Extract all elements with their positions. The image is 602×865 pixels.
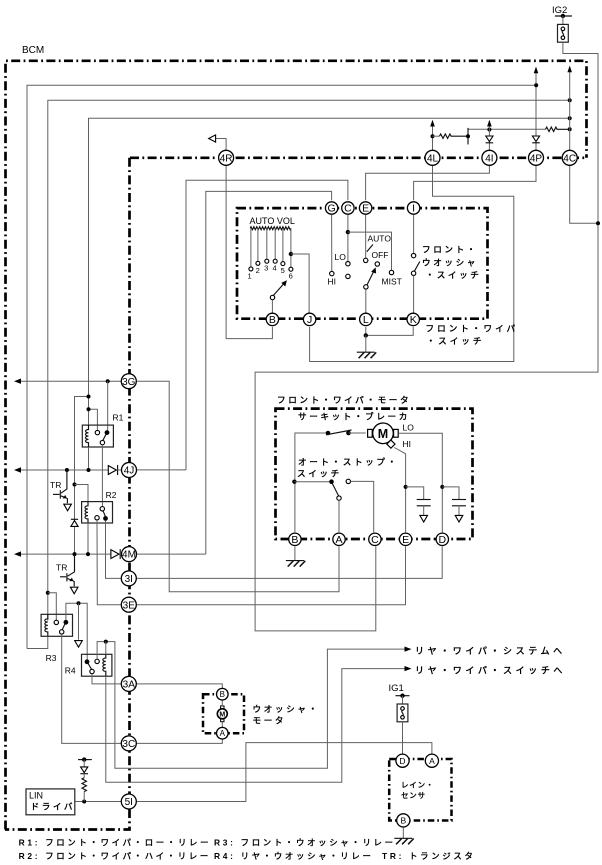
svg-text:BCM: BCM xyxy=(22,45,44,56)
wire washer M to A xyxy=(221,722,223,728)
open triangle below TR1 xyxy=(64,504,72,511)
svg-text:TR: TR xyxy=(56,563,67,573)
wire G to HI contact xyxy=(331,215,333,272)
svg-text:MIST: MIST xyxy=(382,277,402,287)
wire C down xyxy=(347,215,349,262)
wire branch to R2 coil net xyxy=(75,397,89,554)
arrowhead 4I up xyxy=(487,120,492,127)
svg-text:R1: R1 xyxy=(113,413,124,423)
open arrowhead 4R left xyxy=(209,135,216,142)
capacitor 1 xyxy=(406,487,431,522)
svg-text:サーキット・ブレーカ: サーキット・ブレーカ xyxy=(298,411,410,422)
wire motor HI to E xyxy=(394,448,405,533)
wire R1 contact to coil-top junction xyxy=(89,409,98,431)
svg-text:D: D xyxy=(399,756,405,766)
svg-text:5: 5 xyxy=(281,266,285,275)
svg-text:HI: HI xyxy=(403,439,412,449)
pin D rain xyxy=(396,754,409,767)
svg-text:2: 2 xyxy=(256,266,260,275)
svg-text:R4: R4 xyxy=(65,666,76,676)
LIN branch terminal dot xyxy=(82,757,86,761)
LIN branch terminal bar xyxy=(78,759,92,761)
wire motor B up to breaker xyxy=(295,433,326,532)
svg-text:センサ: センサ xyxy=(401,791,426,800)
wire to R2 coil top xyxy=(75,485,89,503)
pin J switch xyxy=(303,313,315,326)
svg-text:E: E xyxy=(402,534,409,546)
wire L-K junction to ground xyxy=(366,327,413,336)
wire R4 coil bottom to rear wiper switch arrow xyxy=(106,669,405,783)
pin K switch xyxy=(407,313,419,326)
pin 4P xyxy=(529,150,544,165)
wire 4R to B switch xyxy=(226,165,272,339)
svg-text:G: G xyxy=(328,203,336,215)
svg-text:LO: LO xyxy=(335,252,347,262)
junction bar/4L-branch xyxy=(466,134,470,138)
pin G switch xyxy=(325,202,337,215)
circuit breaker xyxy=(326,430,352,435)
wire 3G to motor A xyxy=(136,381,339,592)
IG2 terminal bar xyxy=(555,15,572,17)
arrowhead rear wiper switch xyxy=(405,666,412,671)
svg-text:R3: フロント・ウオッシャ・リレー: R3: フロント・ウオッシャ・リレー xyxy=(214,838,396,848)
svg-text:リヤ・ワイパ・スイッチへ: リヤ・ワイパ・スイッチへ xyxy=(415,665,566,676)
wire 4J right to C-switch net xyxy=(136,469,186,471)
junction loop3/R1-contact xyxy=(87,407,91,411)
wire R2 contact to 3E to motor E xyxy=(97,520,406,605)
contact HI xyxy=(330,271,334,275)
svg-text:R2: R2 xyxy=(106,490,117,500)
wire AUTO VOL tap 4 xyxy=(274,228,276,259)
contact MIST xyxy=(389,270,393,274)
motor M wiper xyxy=(368,423,399,448)
wire resistor to 5I line xyxy=(83,792,85,802)
pin 4I xyxy=(482,150,497,165)
arrowhead rear wiper system xyxy=(405,647,412,652)
junction L ground xyxy=(364,333,368,337)
svg-text:C: C xyxy=(371,534,379,546)
wire I switch to 4P xyxy=(414,165,536,200)
svg-text:・スイッチ: ・スイッチ xyxy=(426,270,482,280)
svg-text:4J: 4J xyxy=(124,466,135,477)
wire R1 coil bottom to 4J line xyxy=(88,447,90,470)
svg-text:フロント・: フロント・ xyxy=(422,245,478,255)
svg-text:モータ: モータ xyxy=(253,715,287,726)
wire 4M line with left arrow xyxy=(21,553,113,555)
relay R4 xyxy=(82,654,112,676)
arrowhead 4J left xyxy=(14,467,21,472)
capacitor 2 xyxy=(442,487,466,522)
junction C/MIST branch xyxy=(346,230,350,234)
contact tap 1 xyxy=(249,267,253,271)
svg-text:L: L xyxy=(363,314,369,326)
svg-text:B: B xyxy=(291,534,298,546)
contact below LO xyxy=(346,274,350,278)
svg-text:・スイッチ: ・スイッチ xyxy=(427,336,485,346)
svg-text:E: E xyxy=(362,203,369,215)
junction loop3/branch xyxy=(87,395,91,399)
zener diode on x74.5 (cathode up) xyxy=(71,519,78,526)
IG1 terminal bar xyxy=(396,695,410,697)
pin 4R xyxy=(219,150,234,165)
arrowhead 4M left xyxy=(14,551,21,556)
svg-text:B: B xyxy=(269,314,276,326)
contact tap 2 xyxy=(256,261,260,265)
wire loop2 to R3 contact xyxy=(48,593,57,620)
transistor TR2 xyxy=(60,554,75,586)
pin L switch xyxy=(360,313,372,326)
ground under motor B xyxy=(286,561,305,567)
terminator bar near 4L xyxy=(467,128,469,144)
wire to ground xyxy=(365,335,367,352)
wire 4I vertical with diode xyxy=(488,121,490,151)
junction 4M/R2coil xyxy=(86,552,90,556)
svg-text:R2: フロント・ワイパ・ハイ・リレー: R2: フロント・ワイパ・ハイ・リレー xyxy=(19,851,211,861)
wire auto-stop lever to motor A pin xyxy=(338,500,340,532)
diode above 4P (conducting down) xyxy=(532,136,540,143)
junction tap6 to J xyxy=(289,252,293,256)
pin 3C xyxy=(121,736,136,751)
svg-text:5I: 5I xyxy=(125,797,133,808)
svg-text:B: B xyxy=(400,816,406,826)
arrowhead 4P up xyxy=(534,67,539,74)
arrowhead 4L up xyxy=(430,120,435,127)
pin 3E xyxy=(121,597,136,612)
diode above 4I (conducting down) xyxy=(486,136,494,143)
junction 4C/IG2 xyxy=(596,221,600,225)
wire washer lever to K xyxy=(413,276,415,314)
pin 4C xyxy=(562,150,577,165)
svg-text:4L: 4L xyxy=(427,153,439,164)
svg-text:TR: トランジスタ: TR: トランジスタ xyxy=(382,851,476,861)
svg-text:3G: 3G xyxy=(122,377,136,388)
junction 4J/R1-coil xyxy=(87,468,91,472)
pin B rain xyxy=(397,814,410,827)
junction LIN/diode branch xyxy=(82,800,86,804)
pin A rain xyxy=(425,754,438,767)
wire B switch to lever xyxy=(271,300,273,313)
wire E switch to 4I xyxy=(366,165,490,200)
wire R2 pivot to 3I to motor D xyxy=(106,521,443,579)
pin 4J xyxy=(122,463,137,478)
wire AUTO VOL tap 1 xyxy=(250,228,252,267)
wire R2 coil bottom to 4M xyxy=(87,523,89,554)
svg-text:3: 3 xyxy=(264,263,268,272)
ground under L xyxy=(357,352,376,358)
relay R3 xyxy=(41,614,72,636)
arrowhead 3G left xyxy=(14,379,21,384)
svg-text:レイン・: レイン・ xyxy=(401,781,434,790)
pin C switch xyxy=(342,202,354,215)
svg-text:TR: TR xyxy=(50,480,61,490)
wire AUTO VOL tap 2 xyxy=(257,228,259,261)
wire 4C to IG2 net xyxy=(570,165,598,223)
arrowhead 4C up xyxy=(567,66,572,73)
fuse IG2 xyxy=(558,16,569,42)
pin B washer xyxy=(217,688,229,700)
junction R3R4/arrow branch xyxy=(77,601,81,605)
svg-text:4P: 4P xyxy=(530,153,543,164)
svg-text:オート・ストップ・: オート・ストップ・ xyxy=(298,456,399,467)
svg-text:IG2: IG2 xyxy=(552,5,567,16)
contact OFF xyxy=(364,258,368,262)
pin E motor xyxy=(399,533,411,546)
wire R3 lever to 3C to washer A xyxy=(62,634,223,743)
svg-text:IG1: IG1 xyxy=(389,683,404,694)
front wiper motor box border xyxy=(276,409,473,539)
wire LIN branch upper stub xyxy=(83,760,85,767)
LIN driver box xyxy=(26,789,75,815)
pin A washer xyxy=(217,727,229,739)
wire y129 link bar to 4C xyxy=(468,128,546,130)
wire rain sensor B to ground xyxy=(402,827,404,838)
svg-text:J: J xyxy=(307,314,312,326)
wire R3 pivot to R4 pivot xyxy=(66,603,87,660)
diode before 4M (conducting right) xyxy=(111,549,122,559)
front wiper switch box border xyxy=(237,208,488,319)
wire IG1 to rain sensor D xyxy=(402,722,404,755)
junction 4L resistor branch xyxy=(431,134,435,138)
svg-text:4: 4 xyxy=(273,263,277,272)
junction 4J/TR1 xyxy=(65,468,69,472)
svg-text:3A: 3A xyxy=(123,680,136,691)
wire AUTO VOL tap 6 xyxy=(290,228,292,267)
wire R4 contact up and over xyxy=(97,642,405,769)
svg-text:R1: フロント・ワイパ・ロー・リレー: R1: フロント・ワイパ・ロー・リレー xyxy=(19,838,212,848)
pin A motor xyxy=(333,533,345,546)
svg-text:M: M xyxy=(219,712,225,719)
svg-text:I: I xyxy=(412,203,415,215)
svg-text:OFF: OFF xyxy=(372,250,389,260)
svg-text:ドライバ: ドライバ xyxy=(31,802,76,812)
wire E to OFF contact xyxy=(365,215,367,258)
svg-text:A: A xyxy=(220,729,226,738)
junction loop3/4C xyxy=(568,116,572,120)
wire R4 lever to 3A to washer B xyxy=(92,674,222,689)
svg-text:リヤ・ワイパ・システムへ: リヤ・ワイパ・システムへ xyxy=(415,645,566,656)
wire 3G line with left arrow xyxy=(21,380,122,382)
open triangle below R3 branch xyxy=(75,641,83,648)
contact wiper position xyxy=(375,262,379,266)
wire G switch to 4M xyxy=(206,191,332,554)
selector lever B to tap6 with arrow xyxy=(270,280,287,299)
wire branch to open triangle xyxy=(78,603,80,640)
svg-text:3C: 3C xyxy=(122,739,135,750)
pin C motor xyxy=(369,533,381,546)
wire C switch to 4J xyxy=(186,180,348,470)
relay R1 xyxy=(82,425,113,447)
svg-text:4R: 4R xyxy=(220,153,233,164)
contact tap 5 xyxy=(281,262,285,266)
wire IG2 feed to right edge and down xyxy=(255,42,598,631)
wire 4L to bar xyxy=(433,135,440,137)
wire R4 coil top stub xyxy=(105,642,107,655)
svg-text:R3: R3 xyxy=(46,653,57,663)
svg-text:4C: 4C xyxy=(563,153,576,164)
wire breaker to motor xyxy=(349,432,366,434)
wire R1 pivot feed xyxy=(107,381,109,431)
wire washer B to M xyxy=(221,700,223,706)
svg-text:フロント・ワイパ・モータ: フロント・ワイパ・モータ xyxy=(277,394,411,405)
wire 4C vertical xyxy=(569,67,571,151)
open triangle below TR2 xyxy=(70,587,78,594)
pin 3I xyxy=(121,571,136,586)
junction 4M/x74.5 xyxy=(73,552,77,556)
fuse IG1 xyxy=(397,696,408,722)
wire R1 lever to R2 contact xyxy=(101,445,103,507)
svg-text:3E: 3E xyxy=(123,600,136,611)
tap numbers 1-6 xyxy=(248,263,293,280)
wire motor LO to D xyxy=(398,433,442,532)
wire tap6 to J xyxy=(291,254,309,313)
wire motor B pin to ground xyxy=(294,546,296,560)
ground under rain sensor B xyxy=(394,838,413,844)
contact washer switch fixed xyxy=(411,253,415,257)
wire loop3: to 4C net (through R1 coil) xyxy=(89,118,570,425)
junction auto-stop common xyxy=(292,480,296,484)
junction loop2/R3 xyxy=(46,591,50,595)
svg-text:4I: 4I xyxy=(485,153,493,164)
IG2 terminal dot xyxy=(561,14,565,18)
junction y129/4C xyxy=(568,127,572,131)
resistor on y129 line xyxy=(546,127,570,131)
svg-text:AUTO VOL: AUTO VOL xyxy=(250,216,295,226)
junction R4 coil top xyxy=(104,640,108,644)
svg-text:M: M xyxy=(378,427,388,441)
wire C branch to MIST xyxy=(348,232,392,270)
contact tap 6 xyxy=(289,267,293,271)
pin D motor xyxy=(436,533,448,546)
contact tap 4 xyxy=(273,259,277,263)
junction HI/cap1 xyxy=(404,485,408,489)
junction LO/cap2 xyxy=(440,485,444,489)
svg-text:R4: リヤ・ウオッシャ・リレー: R4: リヤ・ウオッシャ・リレー xyxy=(214,851,374,861)
wire AUTO VOL tap 3 xyxy=(266,228,268,259)
washer switch lever xyxy=(411,262,419,276)
svg-text:K: K xyxy=(410,314,417,326)
svg-text:4M: 4M xyxy=(122,550,136,561)
svg-text:C: C xyxy=(344,203,352,215)
diode LIN branch (conducting down) xyxy=(80,767,88,774)
svg-text:フロント・ワイパ: フロント・ワイパ xyxy=(426,323,519,334)
wire loop2: to 4C net xyxy=(48,100,570,621)
svg-text:6: 6 xyxy=(289,271,293,280)
wire auto-stop contact to motor C pin xyxy=(351,481,374,532)
diode before 4J (conducting right) xyxy=(108,465,122,475)
resistor AUTO VOL xyxy=(250,227,291,230)
svg-text:LO: LO xyxy=(403,423,415,433)
washer motor M xyxy=(217,706,227,722)
svg-text:A: A xyxy=(335,534,342,546)
svg-text:3I: 3I xyxy=(125,574,133,585)
svg-text:LIN: LIN xyxy=(29,791,43,801)
svg-text:AUTO: AUTO xyxy=(368,234,392,244)
auto-stop switch xyxy=(294,479,350,500)
junction loop2/4C xyxy=(568,98,572,102)
wire 4L to J xyxy=(310,165,514,362)
wire 5I to rain sensor A xyxy=(136,743,432,802)
pin 4L xyxy=(425,150,440,165)
junction loop1/4P xyxy=(534,83,538,87)
wire L up to lever xyxy=(365,289,367,313)
svg-text:ウオッシャ・: ウオッシャ・ xyxy=(253,704,320,714)
wiper lever from L xyxy=(364,267,376,289)
pin B motor xyxy=(289,533,301,546)
wire AUTO VOL tap 5 xyxy=(282,228,284,261)
pin E switch xyxy=(359,202,371,215)
pin 3G xyxy=(121,374,136,389)
svg-text:ウオッシャ: ウオッシャ xyxy=(422,258,478,268)
rain sensor box border xyxy=(389,759,451,821)
IG1 terminal dot xyxy=(400,694,404,698)
wire 4L up-arrow xyxy=(432,121,434,151)
pin B switch xyxy=(266,313,278,326)
junction 3G/R1 xyxy=(106,379,110,383)
contact LO xyxy=(346,262,350,266)
pin 5I xyxy=(121,794,136,809)
wire loop1: 4P arrow net top xyxy=(27,85,536,648)
svg-text:HI: HI xyxy=(328,277,337,287)
contact tap 3 xyxy=(265,259,269,263)
svg-text:A: A xyxy=(429,756,435,766)
svg-text:B: B xyxy=(220,690,225,699)
junction x74.5 R2-coil-top xyxy=(73,483,77,487)
resistor 4L branch xyxy=(440,134,469,138)
resistor LIN branch xyxy=(82,778,86,792)
transistor TR1 xyxy=(53,470,67,503)
pin I switch xyxy=(407,202,419,215)
wire diode to resistor xyxy=(83,774,85,778)
wire 4M right to G-switch net xyxy=(136,553,206,555)
svg-text:スイッチ: スイッチ xyxy=(297,469,342,479)
washer motor box border xyxy=(203,694,244,733)
svg-text:D: D xyxy=(439,534,447,546)
wire 4J line with left arrow xyxy=(21,469,110,471)
wire 4R output arrow xyxy=(216,139,226,151)
svg-text:1: 1 xyxy=(248,271,252,280)
pin 3A xyxy=(121,676,136,691)
wire R3 coil bottom to loop1 xyxy=(27,636,48,648)
AUTO position tick xyxy=(367,245,373,252)
wire I to washer switch contact xyxy=(413,215,415,254)
relay R2 xyxy=(82,502,113,523)
wire LIN driver to 5I xyxy=(75,801,122,803)
junction y129/4I xyxy=(487,128,491,132)
wire 4P vertical xyxy=(535,68,537,151)
pin 4M xyxy=(122,547,137,562)
